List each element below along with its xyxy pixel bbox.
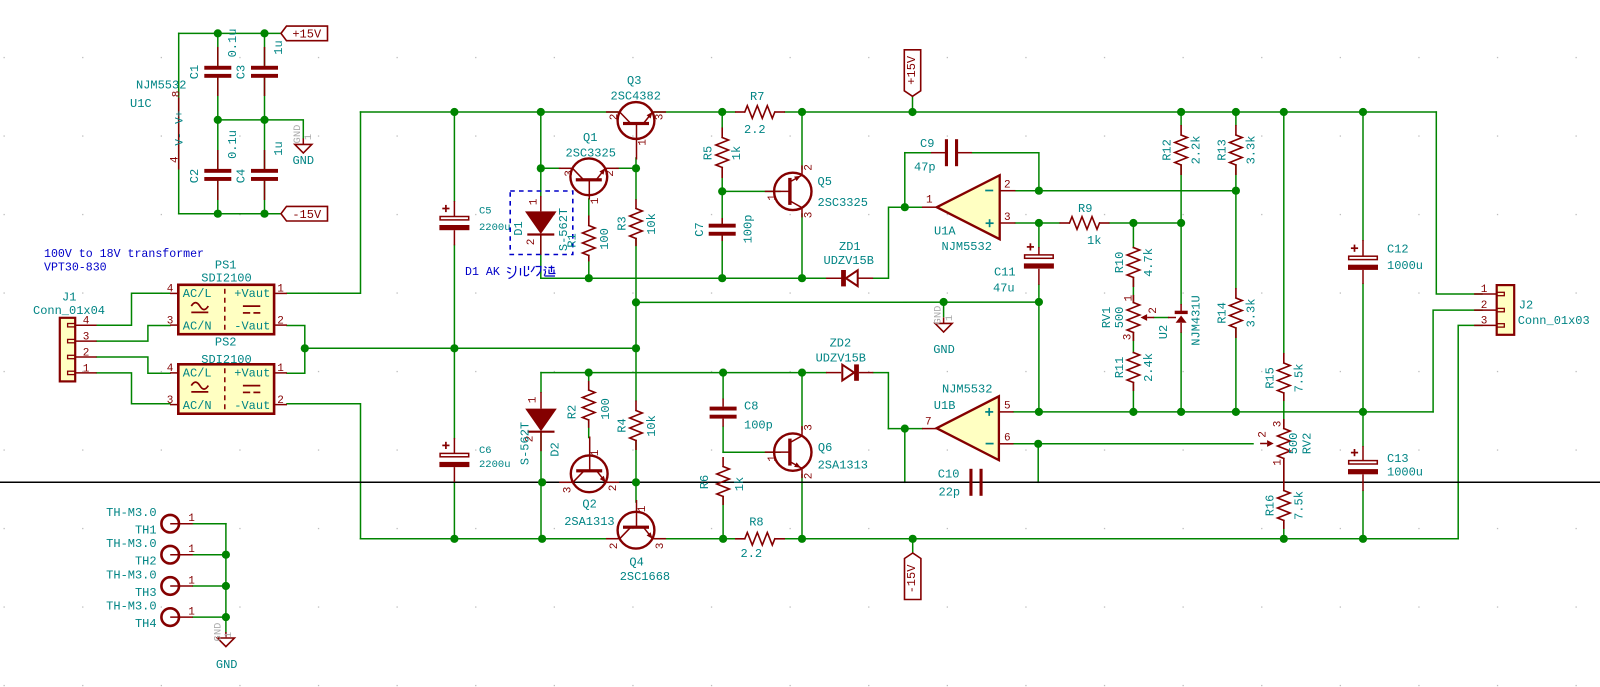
junction — [260, 29, 268, 37]
svg-text:+15V: +15V — [292, 28, 322, 42]
op-amp U1B — [922, 383, 1014, 461]
junction — [1232, 108, 1240, 116]
wire — [1235, 191, 1237, 288]
svg-text:3: 3 — [1273, 421, 1285, 428]
svg-text:U1B: U1B — [934, 399, 956, 413]
svg-text:R5: R5 — [702, 146, 716, 160]
svg-text:R12: R12 — [1161, 139, 1175, 161]
svg-text:100V to 18V transformer: 100V to 18V transformer — [44, 248, 204, 261]
junction — [1177, 408, 1185, 416]
wire — [785, 111, 1436, 113]
svg-text:3: 3 — [1004, 212, 1011, 224]
svg-text:AC/L: AC/L — [183, 367, 212, 381]
svg-text:-15V: -15V — [292, 208, 322, 222]
mounting hole TH1 — [106, 506, 195, 538]
svg-text:3.3k: 3.3k — [1245, 299, 1259, 328]
svg-text:100: 100 — [599, 398, 613, 420]
svg-text:RV1: RV1 — [1100, 307, 1114, 329]
svg-text:4: 4 — [167, 363, 174, 375]
junction — [1035, 408, 1043, 416]
svg-text:Conn_01x03: Conn_01x03 — [1518, 314, 1590, 328]
junction — [585, 369, 593, 377]
wire — [541, 372, 826, 374]
junction — [798, 369, 806, 377]
svg-text:3: 3 — [655, 543, 667, 550]
resistor R15 — [1264, 353, 1307, 401]
wire — [943, 302, 945, 317]
capacitor C2 — [188, 130, 240, 200]
svg-text:2: 2 — [277, 315, 284, 327]
svg-text:1: 1 — [188, 607, 195, 619]
junction — [909, 535, 917, 543]
svg-text:ZD2: ZD2 — [830, 337, 852, 351]
junction — [450, 344, 458, 352]
svg-text:1: 1 — [767, 455, 779, 462]
svg-text:100p: 100p — [742, 215, 756, 244]
svg-text:VPT30-830: VPT30-830 — [44, 262, 107, 275]
resistor R1 — [566, 216, 613, 262]
svg-text:R11: R11 — [1113, 357, 1127, 379]
wire — [453, 348, 455, 438]
svg-text:1u: 1u — [272, 141, 286, 155]
svg-text:1k: 1k — [730, 146, 744, 160]
svg-text:2200u: 2200u — [479, 459, 511, 471]
svg-text:R16: R16 — [1264, 495, 1278, 517]
svg-text:C8: C8 — [744, 400, 758, 414]
wire — [305, 347, 636, 349]
resistor R10 — [1113, 248, 1156, 288]
svg-text:-15V: -15V — [905, 564, 919, 594]
svg-text:1000u: 1000u — [1387, 466, 1423, 480]
svg-text:4.7k: 4.7k — [1142, 248, 1156, 277]
svg-text:0.1u: 0.1u — [226, 130, 240, 159]
capacitor C10 — [938, 468, 983, 500]
power flag -15V — [281, 206, 328, 222]
svg-text:C6: C6 — [479, 445, 492, 457]
capacitor C11 — [993, 243, 1054, 295]
wire — [193, 523, 226, 525]
junction — [222, 551, 230, 559]
svg-text:7: 7 — [925, 417, 932, 429]
svg-text:2: 2 — [1481, 300, 1488, 312]
svg-text:TH-M3.0: TH-M3.0 — [106, 600, 156, 614]
capacitor C1 — [188, 29, 240, 96]
svg-text:TH3: TH3 — [135, 586, 157, 600]
junction — [537, 164, 545, 172]
svg-text:S-562T: S-562T — [518, 422, 532, 465]
svg-text:TH-M3.0: TH-M3.0 — [106, 506, 156, 520]
svg-text:V+: V+ — [174, 111, 186, 124]
svg-text:2: 2 — [83, 348, 90, 360]
transistor Q6 — [765, 424, 868, 479]
svg-text:2SC3325: 2SC3325 — [566, 147, 616, 161]
svg-text:C11: C11 — [994, 266, 1016, 280]
wire — [97, 326, 170, 342]
svg-text:PS2: PS2 — [215, 335, 237, 349]
svg-text:R13: R13 — [1216, 139, 1230, 161]
junction — [1280, 108, 1288, 116]
wire — [1362, 412, 1364, 446]
svg-text:UDZV15B: UDZV15B — [824, 254, 874, 268]
junction — [798, 108, 806, 116]
svg-text:Q2: Q2 — [582, 497, 596, 511]
svg-text:+Vaut: +Vaut — [234, 287, 270, 301]
wire — [1132, 223, 1134, 248]
svg-text:NJM431U: NJM431U — [1190, 295, 1204, 345]
wire — [985, 481, 1038, 483]
svg-text:NJM5532: NJM5532 — [942, 240, 992, 254]
svg-text:R7: R7 — [750, 90, 764, 104]
wire — [1180, 223, 1182, 304]
connector J1 — [33, 291, 105, 382]
mounting hole TH4 — [106, 600, 195, 632]
resistor R7 — [735, 90, 785, 137]
svg-text:1k: 1k — [733, 477, 747, 491]
svg-text:500: 500 — [1113, 307, 1127, 329]
wire — [905, 481, 967, 483]
svg-text:1: 1 — [1273, 459, 1285, 466]
wire — [1154, 317, 1168, 319]
svg-text:C3: C3 — [235, 65, 249, 79]
svg-text:2: 2 — [277, 395, 284, 407]
svg-text:2: 2 — [609, 543, 621, 550]
mounting hole TH2 — [106, 537, 195, 569]
junction — [901, 425, 909, 433]
junction — [901, 203, 909, 211]
svg-text:1: 1 — [188, 576, 195, 588]
svg-text:SDI2100: SDI2100 — [201, 353, 251, 367]
wire — [1038, 302, 1040, 412]
svg-text:1: 1 — [529, 198, 541, 205]
svg-text:2SC3325: 2SC3325 — [818, 196, 868, 210]
wire — [904, 153, 906, 208]
wire — [1436, 112, 1482, 294]
wire — [287, 326, 305, 349]
wire — [179, 213, 281, 215]
wire — [588, 199, 590, 216]
wire — [723, 451, 780, 453]
transistor Q2 — [559, 437, 620, 529]
svg-text:3: 3 — [1481, 315, 1488, 327]
svg-text:-Vaut: -Vaut — [234, 319, 270, 333]
wire — [635, 348, 637, 400]
power flag -15V — [905, 553, 921, 600]
dashed highlight box — [510, 191, 573, 255]
wire — [912, 96, 914, 112]
wire — [193, 616, 226, 618]
junction — [260, 210, 268, 218]
svg-text:C5: C5 — [479, 206, 492, 218]
junction — [1359, 408, 1367, 416]
svg-text:3: 3 — [167, 315, 174, 327]
svg-text:47p: 47p — [914, 161, 936, 175]
resistor R6 — [698, 457, 747, 505]
svg-text:1: 1 — [637, 505, 649, 512]
wire — [588, 420, 590, 438]
wire — [178, 33, 180, 213]
wire — [905, 152, 931, 154]
svg-text:U2: U2 — [1157, 325, 1171, 339]
junction — [908, 108, 916, 116]
wire — [1362, 284, 1364, 412]
capacitor C13 — [1348, 446, 1423, 491]
junction — [1035, 219, 1043, 227]
svg-text:1: 1 — [303, 134, 315, 140]
op-amp U1A — [922, 175, 1015, 254]
svg-text:2: 2 — [608, 485, 620, 492]
wire — [361, 111, 618, 113]
svg-text:2: 2 — [1148, 307, 1160, 314]
wire — [1014, 411, 1434, 413]
wire — [1283, 459, 1285, 491]
svg-text:1: 1 — [944, 315, 956, 321]
svg-text:1: 1 — [527, 396, 539, 403]
junction — [1280, 535, 1288, 543]
svg-text:2.2: 2.2 — [741, 547, 763, 561]
svg-text:C13: C13 — [1387, 452, 1409, 466]
svg-text:Conn_01x04: Conn_01x04 — [33, 304, 105, 318]
power flag +15V — [904, 50, 920, 97]
junction — [1129, 408, 1137, 416]
svg-text:SDI2100: SDI2100 — [201, 271, 251, 285]
svg-text:10k: 10k — [645, 213, 659, 235]
svg-text:C12: C12 — [1387, 243, 1409, 257]
svg-text:22p: 22p — [939, 485, 961, 499]
wire — [1458, 325, 1482, 538]
wire — [1235, 112, 1237, 125]
svg-text:TH2: TH2 — [135, 555, 157, 569]
wire — [635, 302, 637, 348]
svg-text:2.2k: 2.2k — [1190, 136, 1204, 165]
svg-text:47u: 47u — [993, 282, 1015, 296]
junction — [1034, 440, 1042, 448]
svg-text:2: 2 — [1004, 180, 1011, 192]
wire — [721, 112, 723, 128]
wire — [972, 153, 1039, 191]
wire — [540, 235, 542, 279]
junction — [718, 187, 726, 195]
junction — [1035, 298, 1043, 306]
junction — [940, 298, 948, 306]
svg-text:3: 3 — [803, 212, 815, 219]
svg-text:2: 2 — [526, 239, 538, 246]
svg-text:1: 1 — [188, 544, 195, 556]
wire — [635, 441, 637, 483]
zener ZD2 — [816, 337, 874, 381]
wire — [218, 120, 303, 138]
resistor R12 — [1161, 125, 1204, 175]
junction — [798, 535, 806, 543]
svg-text:3: 3 — [654, 114, 666, 121]
ground — [292, 125, 315, 168]
wire — [217, 78, 219, 169]
wire — [540, 373, 542, 392]
svg-text:AC/N: AC/N — [183, 319, 212, 333]
wire — [453, 482, 455, 539]
wire — [635, 239, 637, 303]
wire — [217, 181, 219, 214]
wire — [1015, 190, 1236, 192]
transistor Q1 — [559, 131, 619, 204]
wire — [540, 482, 542, 539]
junction — [632, 478, 640, 486]
resistor R2 — [566, 381, 613, 428]
wire — [1235, 165, 1237, 191]
junction — [1177, 108, 1185, 116]
svg-text:1: 1 — [590, 449, 602, 456]
svg-text:R1: R1 — [566, 233, 580, 247]
svg-text:-Vaut: -Vaut — [234, 399, 270, 413]
svg-text:1: 1 — [1481, 284, 1488, 296]
wire — [904, 429, 906, 483]
wire — [785, 538, 1458, 540]
junction — [538, 535, 546, 543]
junction — [585, 274, 593, 282]
svg-text:6: 6 — [1004, 433, 1011, 445]
wire — [722, 427, 724, 453]
junction — [214, 116, 222, 124]
svg-text:8: 8 — [171, 91, 183, 98]
wire — [721, 191, 723, 223]
wire — [542, 481, 566, 483]
junction — [214, 210, 222, 218]
wire — [635, 482, 637, 502]
wire — [873, 207, 905, 278]
wire — [721, 168, 723, 192]
wire — [1283, 393, 1285, 429]
wire — [801, 373, 803, 430]
resistor R13 — [1216, 125, 1259, 175]
junction — [1232, 187, 1240, 195]
svg-text:R2: R2 — [566, 405, 580, 419]
svg-text:U1C: U1C — [130, 97, 152, 111]
svg-text:2SA1313: 2SA1313 — [818, 458, 868, 472]
wire — [588, 373, 590, 381]
potentiometer RV2 — [1257, 419, 1314, 468]
resistor R9 — [1060, 202, 1110, 248]
wire — [1132, 278, 1134, 303]
wire — [912, 539, 914, 553]
svg-text:GND: GND — [933, 343, 955, 357]
wire — [588, 256, 590, 279]
svg-text:1: 1 — [590, 197, 602, 204]
junction — [632, 344, 640, 352]
wire — [1180, 165, 1182, 223]
wire — [193, 554, 226, 556]
svg-text:R6: R6 — [698, 475, 712, 489]
svg-text:D1 AK: D1 AK — [465, 266, 500, 279]
svg-text:100p: 100p — [744, 419, 773, 433]
capacitor C3 — [235, 40, 286, 96]
svg-text:3: 3 — [167, 395, 174, 407]
wire — [1037, 444, 1039, 483]
power flag +15V — [281, 26, 328, 42]
svg-text:R8: R8 — [749, 516, 763, 530]
transistor Q4 — [606, 500, 670, 584]
svg-text:3: 3 — [1122, 334, 1134, 341]
junction — [301, 344, 309, 352]
svg-text:V-: V- — [174, 132, 186, 145]
transistor Q3 — [606, 74, 666, 160]
junction — [718, 108, 726, 116]
svg-text:2: 2 — [1257, 431, 1269, 438]
wire — [722, 190, 780, 192]
wire — [193, 585, 226, 587]
comment text D1 — [465, 266, 556, 279]
svg-text:NJM5532: NJM5532 — [136, 79, 186, 93]
wire — [541, 277, 826, 279]
diode D2 — [518, 392, 562, 465]
junction — [1035, 187, 1043, 195]
svg-text:1: 1 — [83, 363, 90, 375]
wire — [801, 214, 803, 278]
svg-text:Q6: Q6 — [818, 441, 832, 455]
power module PS1 — [167, 258, 287, 334]
wire — [1015, 222, 1059, 224]
wire — [1283, 521, 1285, 539]
svg-text:GND: GND — [216, 658, 238, 672]
svg-text:2: 2 — [605, 170, 617, 177]
resistor R11 — [1113, 353, 1156, 392]
wire — [217, 33, 219, 65]
resistor R4 — [616, 401, 660, 451]
capacitor C5 — [439, 201, 510, 245]
svg-text:1000u: 1000u — [1387, 259, 1423, 273]
svg-text:2SC1668: 2SC1668 — [620, 570, 670, 584]
svg-text:C2: C2 — [188, 169, 202, 183]
wire — [264, 78, 266, 169]
svg-text:3: 3 — [562, 487, 574, 494]
svg-text:1: 1 — [188, 513, 195, 525]
power module PS2 — [167, 335, 287, 413]
svg-text:J1: J1 — [62, 291, 76, 305]
svg-text:2: 2 — [609, 114, 621, 121]
capacitor C4 — [235, 141, 286, 200]
svg-text:UDZV15B: UDZV15B — [816, 352, 866, 366]
svg-text:TH4: TH4 — [135, 617, 157, 631]
wire — [617, 167, 636, 169]
wire — [453, 112, 455, 201]
svg-text:1: 1 — [277, 363, 284, 375]
junction — [1177, 219, 1185, 227]
ground — [932, 306, 956, 357]
wire — [264, 33, 266, 65]
junction — [214, 29, 222, 37]
svg-text:TH1: TH1 — [135, 524, 157, 538]
wire — [801, 475, 803, 539]
capacitor C9 — [914, 137, 972, 175]
svg-text:R15: R15 — [1264, 367, 1278, 389]
svg-text:R4: R4 — [616, 418, 630, 432]
graphic line — [0, 481, 1600, 483]
svg-text:1: 1 — [277, 284, 284, 296]
svg-text:2SC4382: 2SC4382 — [611, 90, 661, 104]
junction — [798, 274, 806, 282]
svg-text:2.2: 2.2 — [744, 123, 766, 137]
wire — [97, 373, 170, 404]
svg-text:3.3k: 3.3k — [1245, 136, 1259, 165]
svg-text:D1: D1 — [512, 221, 526, 235]
junction — [222, 582, 230, 590]
svg-text:ZD1: ZD1 — [839, 240, 861, 254]
wire — [1110, 222, 1182, 224]
wire — [1283, 112, 1285, 353]
wire — [722, 497, 724, 539]
svg-text:Q4: Q4 — [629, 556, 643, 570]
resistor R5 — [702, 128, 745, 179]
potentiometer RV1 — [1100, 295, 1160, 341]
capacitor C7 — [693, 215, 756, 244]
